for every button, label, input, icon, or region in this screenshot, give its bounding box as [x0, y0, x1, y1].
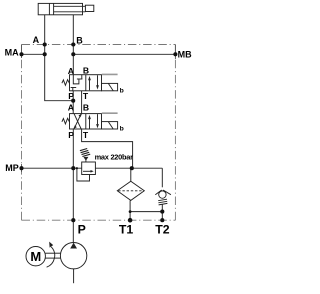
svg-text:T: T: [83, 91, 89, 101]
svg-text:P: P: [68, 91, 74, 101]
svg-text:b: b: [120, 87, 124, 94]
svg-text:B: B: [76, 36, 83, 46]
svg-text:A: A: [68, 103, 74, 113]
svg-text:P: P: [78, 223, 86, 237]
svg-text:b: b: [120, 126, 124, 133]
svg-text:MB: MB: [178, 49, 192, 59]
svg-text:MP: MP: [5, 163, 19, 173]
svg-text:T: T: [83, 130, 89, 140]
svg-text:A: A: [68, 66, 74, 76]
svg-text:M: M: [30, 249, 41, 264]
svg-text:A: A: [33, 35, 40, 45]
svg-text:P: P: [68, 130, 74, 140]
svg-text:B: B: [83, 103, 89, 113]
svg-text:T2: T2: [155, 223, 170, 237]
svg-text:max 220bar: max 220bar: [95, 152, 134, 161]
svg-text:B: B: [83, 65, 89, 75]
svg-text:T1: T1: [119, 223, 134, 237]
svg-text:MA: MA: [5, 47, 19, 57]
